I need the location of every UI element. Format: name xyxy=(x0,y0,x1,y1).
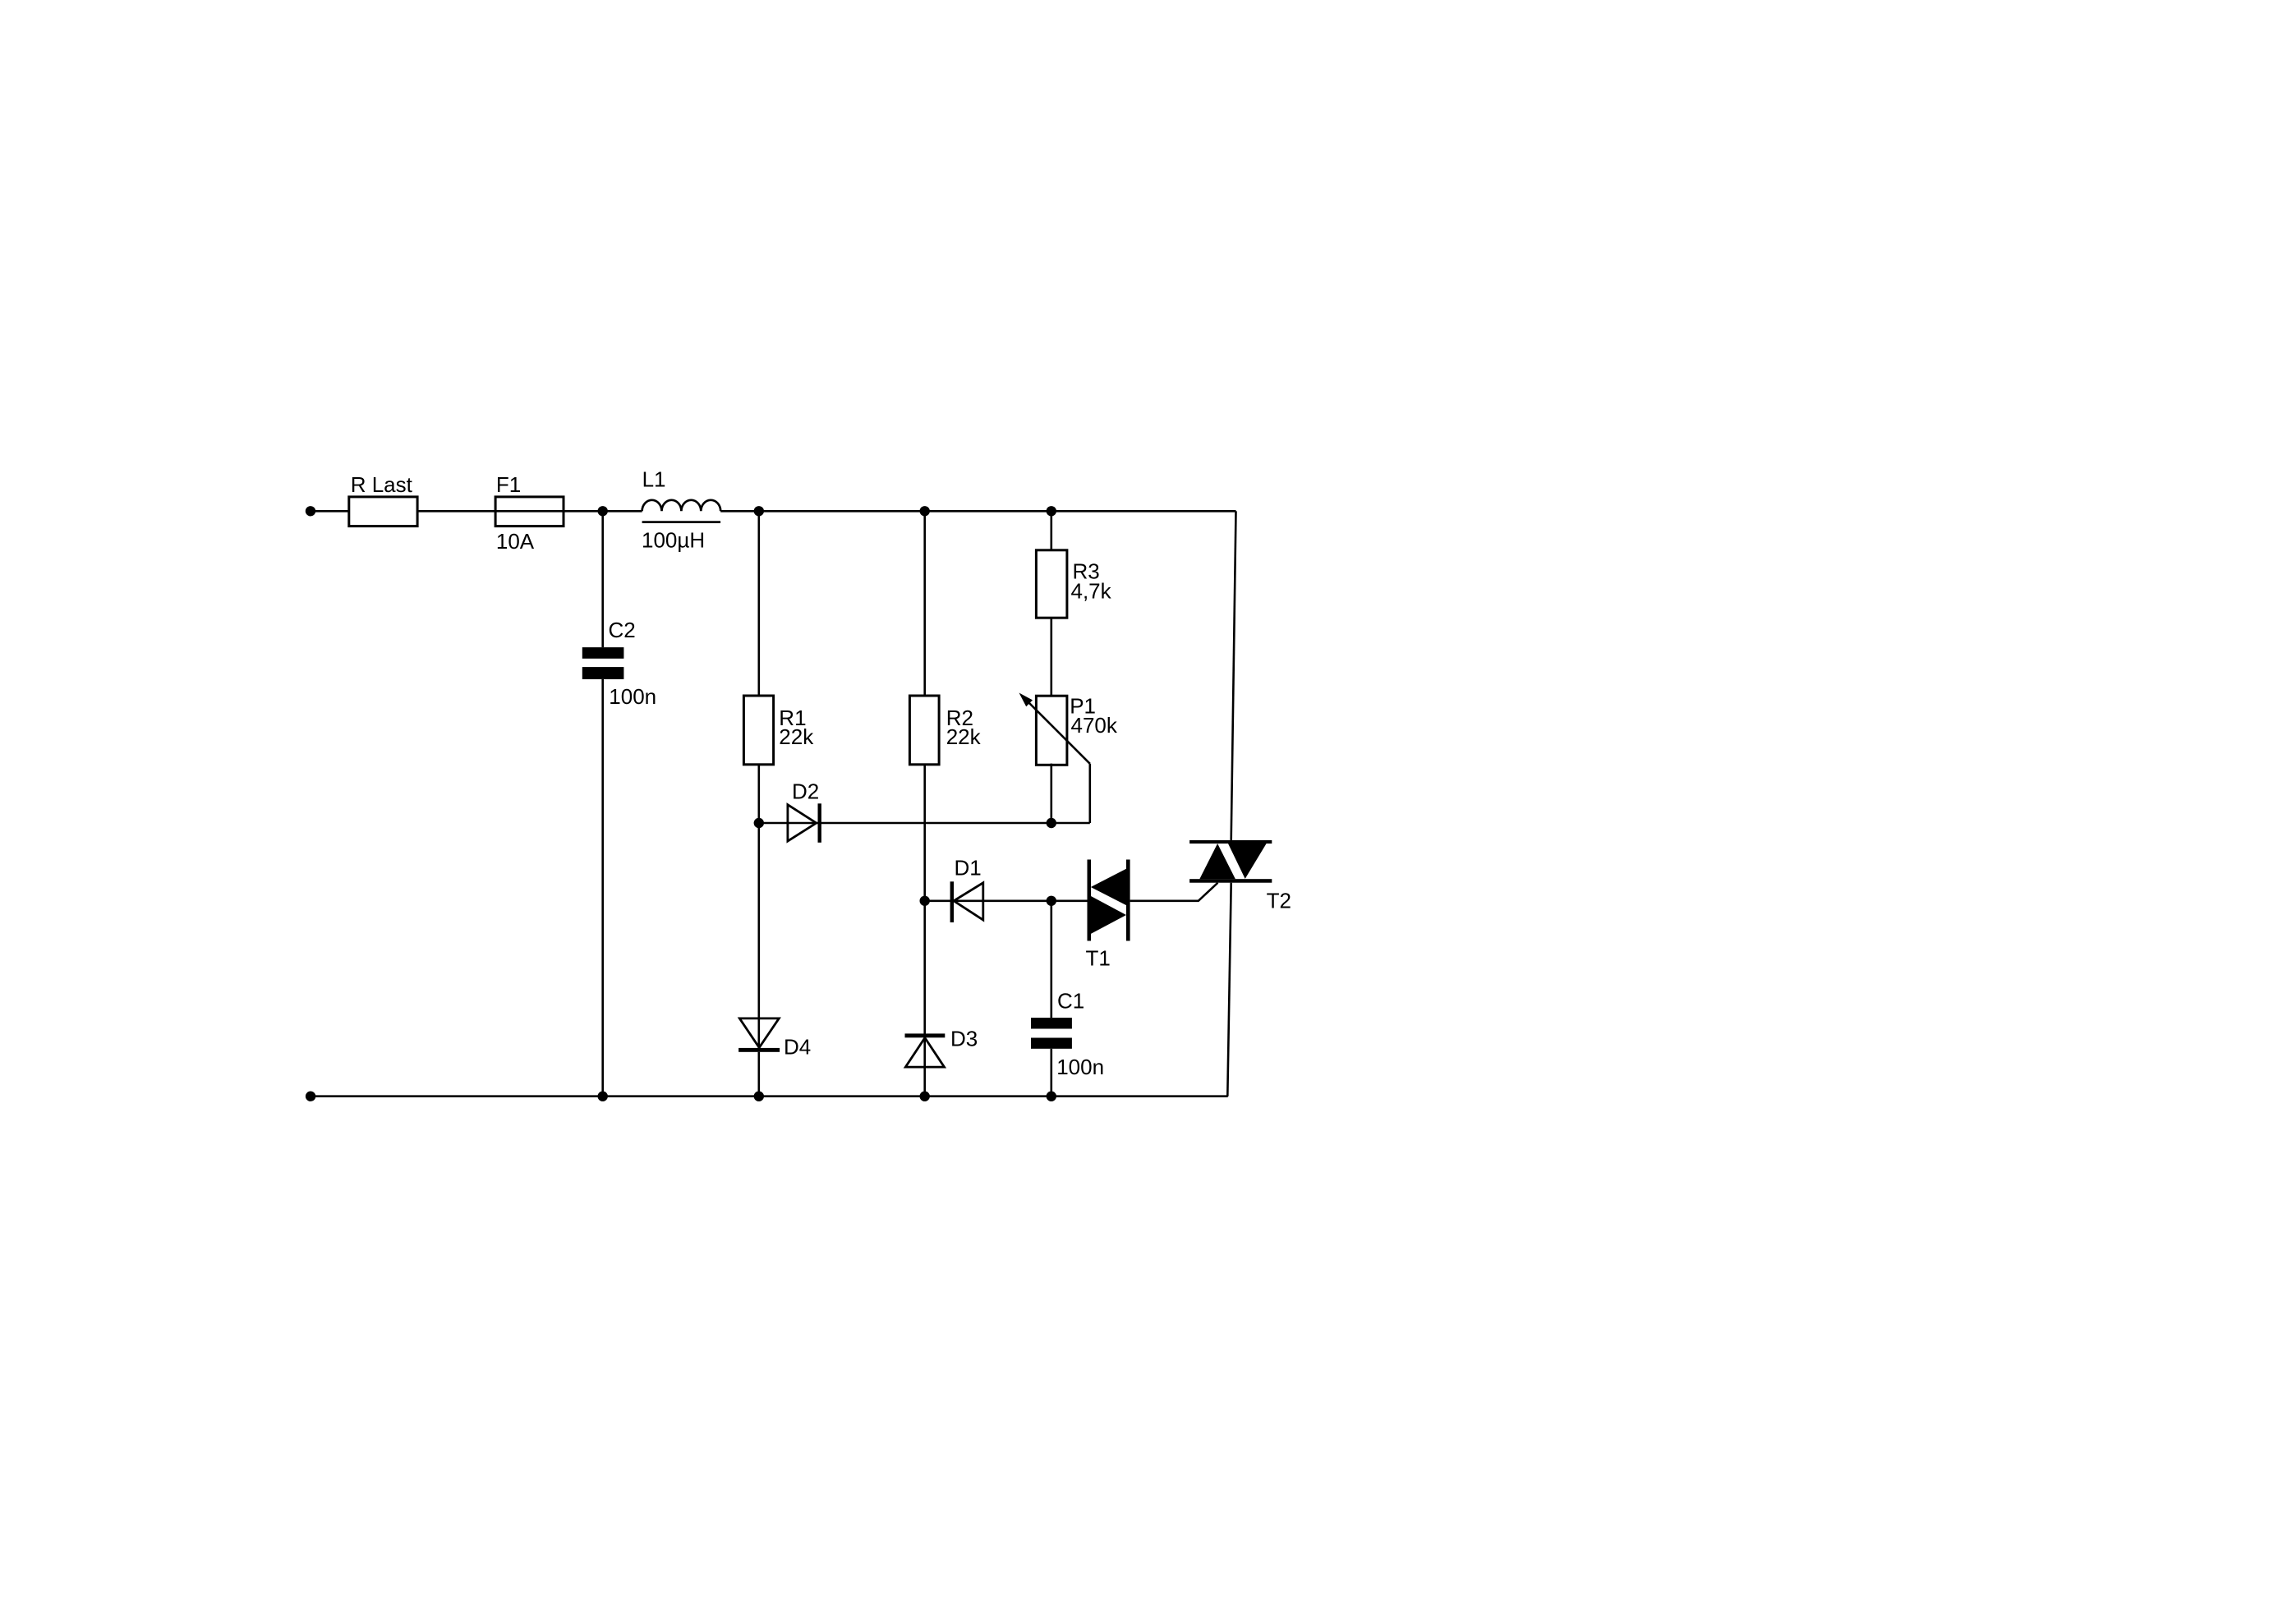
svg-text:L1: L1 xyxy=(642,467,666,491)
wire R2 box to D1 node xyxy=(923,765,926,901)
label D3 xyxy=(950,1027,978,1051)
fuse F1 xyxy=(495,497,564,526)
svg-text:D2: D2 xyxy=(792,779,819,803)
svg-text:F1: F1 xyxy=(496,472,521,497)
triac T2 xyxy=(1189,840,1272,883)
node junction top R2 xyxy=(920,506,930,516)
label F1 xyxy=(496,472,521,497)
label R3 xyxy=(1073,559,1100,584)
wire R3 column upper xyxy=(1051,511,1053,550)
svg-text:C2: C2 xyxy=(609,618,636,642)
svg-text:D1: D1 xyxy=(955,856,982,880)
wire top rail right segment xyxy=(720,510,1235,513)
label 100n value of C2 xyxy=(609,684,656,709)
inductor L1 xyxy=(642,500,721,522)
wire between F1 and L1 xyxy=(564,510,642,513)
diac T1 xyxy=(1088,860,1130,941)
svg-text:22k: 22k xyxy=(779,724,814,749)
label R2 xyxy=(946,706,973,730)
wire D3 to bottom rail xyxy=(923,1067,926,1097)
wire diac to triac gate xyxy=(1130,883,1218,901)
node junction bottom D3 xyxy=(920,1092,930,1101)
wire triac anode bottom xyxy=(1227,883,1231,1097)
wire D3 column upper xyxy=(923,901,926,1067)
label 100n value of C1 xyxy=(1056,1055,1104,1079)
diode D4 xyxy=(738,1018,780,1052)
label C1 xyxy=(1057,988,1084,1013)
wire R1 column upper xyxy=(757,511,760,696)
label 10A value of F1 xyxy=(496,529,535,554)
svg-text:22k: 22k xyxy=(946,724,982,749)
node terminal input bottom xyxy=(306,1092,315,1101)
svg-text:100n: 100n xyxy=(609,684,656,709)
node terminal input top xyxy=(306,506,315,516)
label T1 xyxy=(1086,945,1111,970)
diode D2 xyxy=(788,803,821,843)
label 100uH value of L1 xyxy=(642,528,705,553)
label 4,7k value of R3 xyxy=(1071,579,1112,604)
wire D2 row left xyxy=(759,822,788,825)
node junction top C2 xyxy=(598,506,608,516)
wire C2 column lower xyxy=(601,679,604,1097)
svg-text:4,7k: 4,7k xyxy=(1071,579,1112,604)
svg-text:100µH: 100µH xyxy=(642,528,705,553)
wire D1 row left xyxy=(925,900,983,903)
label P1 xyxy=(1070,693,1096,718)
node junction bottom D4 xyxy=(754,1092,764,1101)
svg-text:R Last: R Last xyxy=(351,472,413,497)
resistor R1 xyxy=(743,696,773,765)
resistor R3 xyxy=(1036,550,1067,618)
resistor R2 xyxy=(909,696,939,765)
svg-text:D4: D4 xyxy=(784,1035,811,1060)
node junction D2 row C1 column xyxy=(1047,818,1056,828)
wire D4 column upper xyxy=(757,823,760,1048)
capacitor C1 xyxy=(1031,1018,1072,1049)
svg-text:C1: C1 xyxy=(1057,988,1084,1013)
label 22k value of R1 xyxy=(779,724,814,749)
wire between R Last and F1 xyxy=(417,510,495,513)
label T2 xyxy=(1267,888,1291,913)
wire D4 to bottom rail xyxy=(757,1052,760,1097)
label D1 xyxy=(955,856,982,880)
label 470k value of P1 xyxy=(1071,713,1118,738)
capacitor C2 xyxy=(582,647,624,679)
node junction top R3 xyxy=(1047,506,1056,516)
wire R3 to P1 xyxy=(1051,618,1053,697)
label R1 xyxy=(779,706,806,730)
label D2 xyxy=(792,779,819,803)
wire P1 box bottom to D2 row node xyxy=(1051,764,1053,823)
svg-text:T2: T2 xyxy=(1267,888,1291,913)
wire top rail left segment xyxy=(311,510,349,513)
wire D2 row right xyxy=(788,822,1090,825)
node junction top R1 xyxy=(754,506,764,516)
diode D1 xyxy=(950,881,983,922)
label C2 xyxy=(609,618,636,642)
wire C1 column lower xyxy=(1051,1049,1053,1097)
wire R2 column upper xyxy=(923,511,926,696)
diode D3 xyxy=(905,1033,946,1067)
wire P1 wiper vertical xyxy=(1089,764,1092,823)
label R Last xyxy=(351,472,413,497)
node junction bottom C2 xyxy=(598,1092,608,1101)
node junction D2 anode R1 bottom xyxy=(754,818,764,828)
wire triac anode top xyxy=(1231,511,1236,840)
svg-text:100n: 100n xyxy=(1056,1055,1104,1079)
svg-text:10A: 10A xyxy=(496,529,535,554)
resistor R Last xyxy=(349,497,417,526)
potentiometer P1 xyxy=(1019,693,1090,766)
svg-text:D3: D3 xyxy=(950,1027,978,1051)
wire D1 row right to diac xyxy=(983,900,1088,903)
svg-text:470k: 470k xyxy=(1071,713,1118,738)
wire R1 box to D2 node xyxy=(757,765,760,823)
wire C2 column upper xyxy=(601,511,604,647)
label 22k value of R2 xyxy=(946,724,982,749)
node junction D1 row C1 column xyxy=(1047,896,1056,906)
label L1 xyxy=(642,467,666,491)
wire bottom rail xyxy=(311,1095,1228,1097)
node junction D1 R2 bottom xyxy=(920,896,930,906)
svg-text:T1: T1 xyxy=(1086,945,1111,970)
label D4 xyxy=(784,1035,811,1060)
wire C1 column upper xyxy=(1051,901,1053,1018)
node junction bottom C1 xyxy=(1047,1092,1056,1101)
